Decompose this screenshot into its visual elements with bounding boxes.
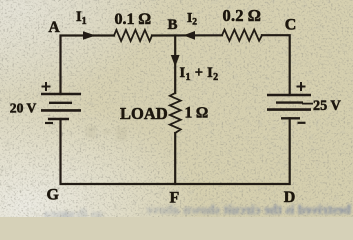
svg-text:0.1 Ω: 0.1 Ω	[115, 11, 151, 28]
resistor R2 0.2 ohm zigzag	[222, 30, 262, 41]
minus sign of V1	[45, 122, 53, 124]
svg-text:A: A	[49, 19, 61, 36]
wire: R1 to B	[152, 34, 222, 36]
faint mirrored bleed-through text at bottom	[43, 202, 351, 223]
resistor LOAD 1 ohm zigzag	[170, 93, 181, 133]
wire: top left segment A to R1	[61, 36, 115, 95]
svg-text:1 Ω: 1 Ω	[185, 105, 209, 122]
wire: bottom G to D	[61, 118, 290, 184]
svg-text:B: B	[168, 17, 178, 33]
wire: R2 to C corner and down to right battery	[262, 35, 290, 95]
dash linking V2 to 25 V label	[302, 103, 313, 105]
faint bleed-through pencil marks middle-left	[86, 126, 127, 140]
svg-text:25 V: 25 V	[313, 98, 341, 114]
svg-text:C: C	[285, 17, 297, 34]
svg-text:I1 + I2: I1 + I2	[180, 65, 219, 83]
current arrow I1 (points right)	[83, 31, 96, 40]
svg-text:G: G	[47, 186, 60, 203]
plus sign of V2	[297, 82, 306, 91]
current arrow I2 (points left)	[183, 31, 195, 40]
svg-text:20 V: 20 V	[10, 100, 37, 115]
resistor R1 0.1 ohm zigzag	[114, 30, 152, 41]
svg-text:0.2 Ω: 0.2 Ω	[223, 6, 262, 25]
svg-text:LOAD: LOAD	[120, 104, 168, 123]
current arrow I1+I2 (points down)	[171, 55, 180, 67]
wire: node B down to load resistor	[174, 36, 176, 94]
svg-text:D: D	[284, 189, 296, 206]
svg-text:bh: bh	[61, 209, 75, 218]
svg-text:F: F	[170, 189, 180, 206]
plus sign of V1	[42, 82, 51, 91]
battery V2 plates (25 V)	[267, 94, 311, 97]
minus sign of V2	[298, 122, 306, 124]
battery V1 plates (20 V)	[41, 93, 81, 96]
wire: load resistor down to F	[174, 133, 176, 184]
